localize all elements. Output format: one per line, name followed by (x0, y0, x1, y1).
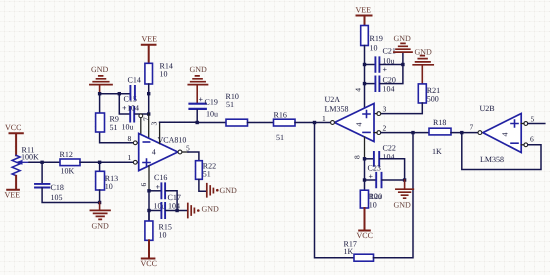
wire R12 to R13 node to pin1 (80, 161, 134, 163)
svg-text:+: + (156, 183, 161, 192)
capacitor C15 (130, 107, 134, 122)
wire pin6 down (148, 191, 150, 221)
node feedback junction (313, 121, 316, 124)
capacitor C18 (35, 184, 49, 188)
svg-text:10: 10 (370, 44, 378, 53)
svg-text:C16: C16 (154, 173, 167, 182)
svg-text:VCC: VCC (141, 259, 157, 268)
svg-text:10K: 10K (61, 167, 75, 176)
wire pin8 down to R20 (364, 159, 366, 190)
wire wiper to R12 (29, 161, 60, 163)
wire R10 to R16 (248, 122, 274, 124)
pin 6 of VCA810 (139, 166, 149, 191)
node C22 junction (363, 157, 366, 160)
svg-text:8: 8 (128, 134, 132, 143)
plus mark U2A (363, 111, 370, 118)
node pin6/C16 junction (147, 189, 150, 192)
wire C17 left lead (149, 210, 161, 212)
svg-text:C19: C19 (205, 98, 218, 107)
ground GND (sideways, R22) (207, 184, 237, 197)
node C19/main rail junction (196, 121, 199, 124)
svg-text:R16: R16 (274, 111, 287, 120)
wire C21 right lead to ground (380, 52, 403, 64)
U2A BLOCK (322, 6, 477, 240)
potentiometer R11 (12, 155, 30, 175)
wire R18 to U2B pin7 (451, 132, 477, 134)
svg-text:C18: C18 (51, 183, 64, 192)
svg-text:10: 10 (369, 201, 377, 210)
svg-text:VEE: VEE (5, 191, 21, 200)
pin 5 of VCA810 (178, 144, 190, 154)
svg-text:VEE: VEE (356, 6, 372, 15)
wire feedback loop left/bottom (315, 123, 355, 258)
wire C22 right lead down (380, 159, 405, 180)
resistor R22 (196, 161, 203, 180)
capacitor C19 (190, 104, 206, 109)
svg-text:4: 4 (152, 147, 156, 156)
svg-text:C21: C21 (383, 47, 396, 56)
resistor R19 (361, 26, 369, 46)
svg-text:5: 5 (186, 144, 190, 153)
node R9 top junction (98, 92, 101, 95)
wire R16 to U2A pin1 (295, 122, 331, 124)
node C20 junction (363, 82, 366, 85)
wire R21 bottom to pin 3 (381, 103, 422, 114)
node feedback/pin2 junction (411, 131, 414, 134)
svg-text:10u: 10u (154, 201, 166, 210)
ground GND (above C21) (394, 34, 413, 52)
capacitor C17 (161, 203, 165, 218)
svg-text:10u: 10u (122, 123, 134, 132)
pin 7 of U2B (470, 123, 482, 135)
svg-text:104: 104 (383, 153, 395, 162)
capacitor C21 (375, 57, 379, 72)
wire R14 bottom lead (148, 84, 150, 114)
wire pin5 to R22 (188, 152, 199, 161)
node wiper/C18 junction (40, 161, 43, 164)
svg-text:1K: 1K (432, 147, 442, 156)
svg-text:6: 6 (530, 135, 534, 144)
wire R9 to pin 8 (100, 132, 134, 143)
pin 7 of VCA810 (139, 114, 151, 135)
svg-text:GND: GND (394, 200, 412, 209)
wire R13 bottom lead (99, 190, 101, 203)
wire C20 left lead (365, 83, 375, 85)
svg-text:GND: GND (220, 186, 238, 195)
svg-text:1K: 1K (344, 247, 354, 256)
ground GND (below C22/C23) (394, 180, 414, 209)
wire C23 right lead (382, 179, 405, 181)
wire C17 right to ground (166, 210, 187, 212)
U2B BLOCK (462, 104, 545, 170)
svg-text:1: 1 (128, 153, 132, 162)
svg-text:VCC: VCC (357, 231, 373, 240)
wire R9 top lead (99, 94, 101, 113)
wire gnd node to C14 (100, 93, 130, 95)
svg-text:105: 105 (51, 193, 63, 202)
ground GND (above R21) (413, 48, 433, 84)
node U2B feedback junction (460, 131, 463, 134)
power VEE (above R19) (356, 6, 372, 26)
wire pin2 to R18 (381, 132, 429, 134)
pin 1 of U2A (322, 114, 334, 124)
ground GND (below R13) (90, 203, 110, 231)
capacitor C22 (374, 152, 379, 166)
LEFT BLOCK (5, 123, 140, 230)
node R12/R13 junction (98, 161, 101, 164)
svg-text:C22: C22 (383, 144, 396, 153)
pin 2 of U2A (374, 124, 387, 135)
capacitor C23 (376, 173, 381, 188)
svg-text:GND: GND (91, 65, 109, 74)
pin 5 of U2B (521, 115, 534, 126)
svg-text:10: 10 (160, 70, 168, 79)
wire C15 right lead (135, 113, 149, 115)
svg-text:5: 5 (531, 115, 535, 124)
pin 6 of U2B (521, 135, 534, 147)
node C17 right junction (175, 209, 178, 212)
resistor R10 (226, 119, 248, 126)
node pin6/C17 junction (147, 209, 150, 212)
resistor R9 (96, 113, 105, 132)
svg-text:U2B: U2B (480, 104, 495, 113)
TOPLEFT BLOCK (90, 35, 237, 269)
wire rail to R10 (196, 122, 226, 124)
resistor R20 (360, 190, 368, 208)
wire C15 tap (119, 94, 129, 114)
pin 1 of VCA810 (128, 153, 140, 164)
wire C21 left lead (365, 64, 375, 66)
wire C16 right to C17 right link (166, 191, 177, 211)
svg-text:C14: C14 (128, 76, 141, 85)
svg-text:VCC: VCC (5, 123, 21, 132)
svg-text:51: 51 (203, 169, 211, 178)
minus mark U2B (511, 142, 518, 144)
op-amp U2A LM358 (335, 104, 375, 142)
svg-text:R19: R19 (370, 34, 383, 43)
minus mark U2A (363, 131, 370, 133)
resistor R15 (145, 221, 153, 240)
node C22/C23 ground junction (403, 178, 406, 181)
svg-text:8: 8 (353, 155, 362, 159)
capacitor C16 (161, 183, 165, 198)
resistor R21 (418, 84, 426, 103)
node C21 junction (363, 63, 366, 66)
svg-text:51: 51 (276, 133, 284, 142)
op-amp U1 VCA810 (139, 134, 178, 171)
pin 3 of VCA810 (149, 114, 159, 138)
svg-text:500: 500 (427, 95, 439, 104)
wire junction to C18 (41, 162, 43, 183)
svg-text:4: 4 (355, 123, 364, 127)
power VEE (above R14) (142, 35, 158, 64)
pin 8 of U2A (bottom) (364, 137, 366, 159)
resistor R18 (429, 128, 451, 135)
svg-text:3: 3 (383, 105, 387, 114)
wire pin5 open (528, 123, 545, 125)
wire U2B feedback loop (462, 134, 541, 169)
power VCC (below R15) (141, 240, 157, 268)
node C15/pins junction (147, 112, 150, 115)
ground GND (top left, above R9) (90, 65, 112, 94)
wire C22 left lead (365, 158, 374, 160)
svg-text:GND: GND (202, 204, 220, 213)
svg-text:LM358: LM358 (325, 105, 349, 114)
wire R22 bottom lead (199, 179, 206, 191)
minus mark U1 (143, 141, 149, 143)
wire C19 bottom lead (196, 110, 198, 123)
resistor R14 (145, 63, 153, 84)
svg-text:100K: 100K (21, 153, 39, 162)
capacitor C14 (130, 86, 135, 100)
resistor R16 (274, 119, 296, 126)
wire C18 to ground rail (42, 188, 100, 203)
plus mark U2B (511, 120, 518, 127)
svg-text:+: + (199, 95, 204, 104)
plus mark U1 (143, 159, 150, 166)
svg-text:4: 4 (501, 133, 510, 137)
svg-text:10u: 10u (370, 192, 382, 201)
svg-text:3: 3 (150, 122, 159, 126)
wire R13 top lead (99, 162, 101, 171)
wire C16 left lead (149, 190, 161, 192)
svg-text:GND: GND (190, 65, 208, 74)
power VEE (left) (5, 176, 21, 200)
node C15 tap junction (118, 92, 121, 95)
svg-text:R18: R18 (433, 118, 446, 127)
wire feedback loop right (374, 133, 414, 258)
svg-text:VCA810: VCA810 (158, 136, 187, 145)
unnumbered top pin of U1 (159, 122, 161, 143)
svg-text:51: 51 (110, 123, 118, 132)
resistor R17 (354, 254, 374, 261)
pin 8 of VCA810 (128, 134, 140, 145)
op-amp U2B LM358 (483, 114, 521, 153)
svg-text:U2A: U2A (325, 95, 341, 104)
node C20/C21 ground junction (401, 63, 404, 66)
MID BLOCK (196, 92, 413, 261)
svg-text:GND: GND (394, 34, 412, 43)
svg-text:1: 1 (322, 114, 326, 123)
svg-text:R12: R12 (60, 150, 73, 159)
svg-text:LM358: LM358 (480, 155, 504, 164)
svg-text:10: 10 (105, 182, 113, 191)
svg-text:104: 104 (383, 84, 395, 93)
pin 3 of U2A (374, 105, 387, 116)
ground GND (above C19) (188, 65, 207, 103)
node C14/R14 junction (147, 92, 150, 95)
svg-text:2: 2 (383, 124, 387, 133)
wire C23 left lead (365, 179, 376, 181)
node C23 junction (363, 178, 366, 181)
svg-text:4: 4 (354, 88, 363, 92)
resistor R12 (60, 159, 80, 166)
ground GND (sideways, C16/C17) (188, 204, 219, 218)
resistor R13 (96, 171, 105, 190)
node ground junction (98, 201, 101, 204)
svg-text:10u: 10u (206, 110, 218, 119)
svg-text:51: 51 (226, 100, 234, 109)
wire C20 right lead up to ground node (380, 65, 403, 84)
svg-text:6: 6 (139, 183, 148, 187)
svg-text:VEE: VEE (142, 35, 158, 44)
power VCC (left) (5, 123, 23, 155)
capacitor C20 (375, 76, 379, 91)
svg-text:7: 7 (470, 123, 474, 132)
wire R19 bottom / pin 4 of U2A (364, 46, 366, 109)
wire U1 out to main rail (160, 121, 196, 123)
svg-text:104: 104 (127, 104, 139, 113)
svg-text:+: + (369, 172, 374, 181)
svg-text:+: + (383, 65, 388, 74)
svg-text:10: 10 (159, 231, 167, 240)
svg-text:GND: GND (92, 221, 110, 230)
power VCC (below R20) (357, 208, 373, 240)
wire R15 top lead (148, 211, 150, 222)
